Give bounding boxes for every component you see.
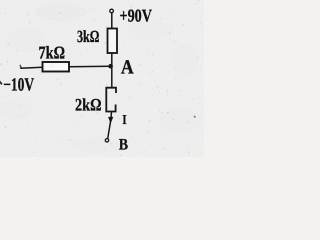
svg-text:2kΩ: 2kΩ [75, 94, 102, 114]
scan noise speckles [0, 0, 202, 156]
node A junction [108, 64, 113, 69]
stray mark at left edge [0, 81, 3, 86]
node B terminal [105, 139, 108, 142]
paper background [0, 0, 204, 157]
wire (horizontal from left) [20, 67, 42, 68]
svg-text:−10V: −10V [3, 75, 34, 95]
wire [111, 53, 113, 88]
resistor R3 2kΩ (broken right edge in scan) [106, 88, 116, 112]
wire (slanted, down to B) [108, 112, 112, 139]
resistor R2 7kΩ [43, 62, 70, 72]
resistor R1 3kΩ [108, 29, 118, 54]
wire [69, 65, 111, 68]
wire [111, 13, 113, 29]
svg-text:I: I [122, 112, 126, 127]
stray tick at wire tip [20, 65, 22, 68]
current arrow [108, 117, 113, 124]
svg-text:3kΩ: 3kΩ [77, 27, 100, 46]
node +90V terminal [110, 9, 114, 13]
